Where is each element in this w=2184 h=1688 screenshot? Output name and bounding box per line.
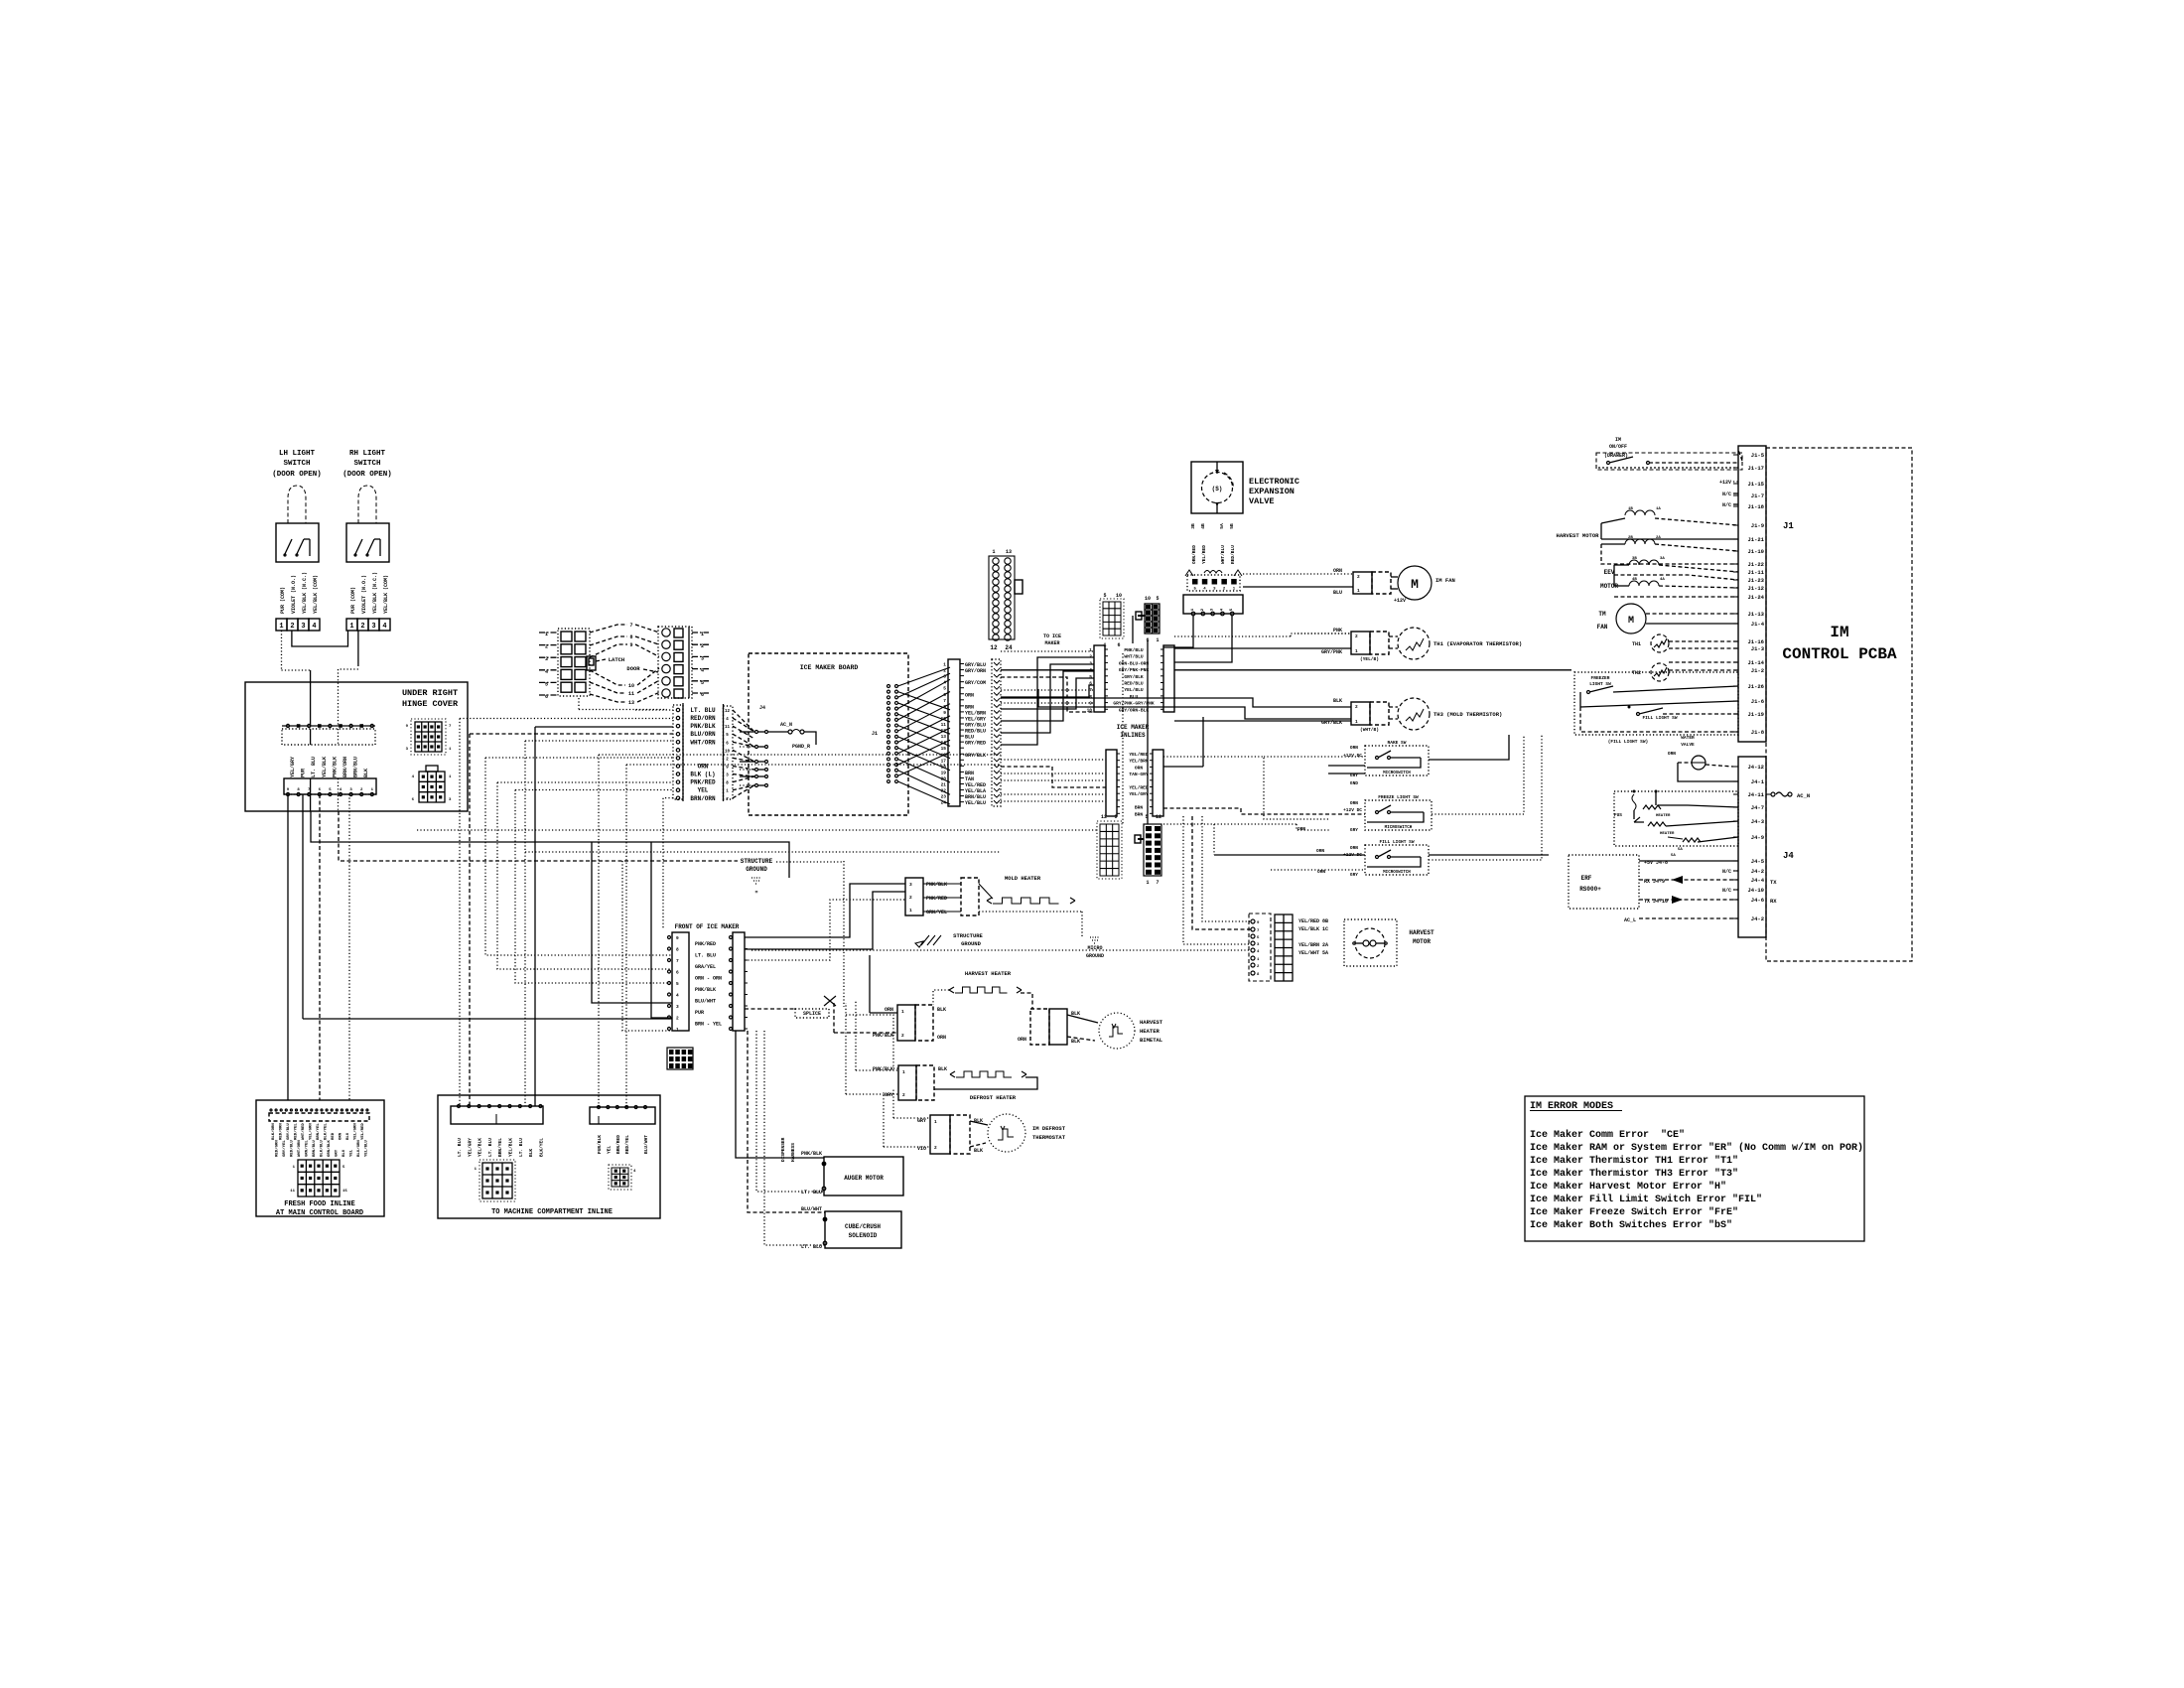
svg-text:13: 13 [1006, 549, 1012, 555]
svg-text:GRN/YEL: GRN/YEL [926, 910, 947, 915]
svg-text:FRONT OF ICE MAKER: FRONT OF ICE MAKER [675, 923, 740, 930]
svg-text:BLK: BLK [363, 769, 369, 777]
svg-text:YEL/BLK (COM): YEL/BLK (COM) [313, 575, 319, 614]
svg-text:3: 3 [676, 1004, 679, 1010]
svg-text:2: 2 [1357, 574, 1360, 580]
svg-text:J1-7: J1-7 [1751, 492, 1764, 499]
svg-text:M: M [1628, 616, 1634, 627]
svg-text:8: 8 [676, 947, 679, 953]
svg-text:J4-4: J4-4 [1751, 877, 1765, 884]
svg-text:J1-12: J1-12 [1747, 585, 1764, 592]
svg-text:8: 8 [943, 704, 946, 710]
svg-text:21: 21 [941, 782, 947, 788]
svg-text:MICROSWITCH: MICROSWITCH [1383, 871, 1411, 875]
svg-text:(DOOR OPEN): (DOOR OPEN) [342, 471, 392, 479]
svg-text:YEL/RED 8B: YEL/RED 8B [1298, 918, 1328, 924]
svg-text:BLU: BLU [342, 1149, 346, 1157]
svg-text:BRN: BRN [1135, 805, 1144, 811]
svg-text:2: 2 [902, 1092, 905, 1098]
svg-text:13: 13 [941, 734, 947, 740]
svg-text:(FILL LIGHT SW): (FILL LIGHT SW) [1608, 739, 1649, 745]
svg-text:AUGER MOTOR: AUGER MOTOR [844, 1175, 884, 1182]
svg-text:1: 1 [279, 623, 283, 631]
svg-text:ORN: ORN [340, 1132, 343, 1140]
svg-text:MOTOR: MOTOR [1413, 938, 1431, 945]
svg-text:GRN/YEL: GRN/YEL [305, 1140, 310, 1157]
svg-text:PNK/RED: PNK/RED [690, 779, 716, 786]
svg-text:11: 11 [628, 691, 634, 697]
svg-text:ORN: ORN [1018, 1037, 1026, 1043]
svg-text:ORN - ORN: ORN - ORN [695, 976, 722, 982]
svg-text:N/C: N/C [1722, 888, 1731, 894]
svg-text:LT. BLU: LT. BLU [457, 1138, 463, 1157]
svg-text:WHT/BLU: WHT/BLU [1124, 654, 1144, 660]
svg-text:GRY: GRY [1350, 773, 1358, 778]
svg-text:HEATER: HEATER [1660, 832, 1675, 836]
svg-text:YEL/RED: YEL/RED [1129, 785, 1149, 791]
svg-text:3A: 3A [1660, 557, 1665, 561]
svg-text:2: 2 [901, 1033, 904, 1039]
svg-text:5: 5 [1156, 596, 1159, 602]
svg-text:J4-10: J4-10 [1747, 887, 1764, 894]
svg-text:HARVEST HEATER: HARVEST HEATER [965, 970, 1012, 977]
svg-text:TH3 (MOLD THERMISTOR): TH3 (MOLD THERMISTOR) [1433, 711, 1502, 718]
svg-text:7: 7 [629, 623, 632, 629]
svg-text:GRY/BLK: GRY/BLK [1321, 720, 1342, 726]
svg-text:IM DEFROST: IM DEFROST [1032, 1125, 1066, 1132]
svg-text:J1-4: J1-4 [1751, 621, 1765, 628]
svg-text:J4-12: J4-12 [1747, 764, 1764, 771]
svg-text:PUR: PUR [695, 1010, 704, 1016]
svg-text:2: 2 [934, 1145, 937, 1151]
svg-text:1: 1 [1355, 648, 1358, 654]
svg-text:BRN - YEL: BRN - YEL [695, 1022, 722, 1028]
svg-text:TAN-GRY: TAN-GRY [1129, 772, 1149, 777]
svg-text:2: 2 [290, 623, 294, 631]
svg-text:IM: IM [1830, 624, 1848, 641]
svg-text:GND: GND [1350, 780, 1358, 786]
svg-text:MICROSWITCH: MICROSWITCH [1385, 826, 1413, 830]
svg-text:PNK/BLU: PNK/BLU [1124, 647, 1144, 653]
svg-text:BLK: BLK [938, 1066, 947, 1072]
svg-text:1: 1 [992, 549, 995, 555]
svg-text:GRY/BLK: GRY/BLK [965, 753, 986, 759]
svg-text:4: 4 [676, 993, 679, 999]
svg-text:PNK/BLK: PNK/BLK [695, 987, 716, 993]
svg-text:ORN/BLK: ORN/BLK [327, 1140, 332, 1157]
svg-text:YEL/BRN: YEL/BRN [1129, 759, 1149, 765]
svg-text:Ice Maker Both Switches Error: Ice Maker Both Switches Error "bS" [1530, 1219, 1732, 1231]
svg-text:GRY: GRY [336, 1149, 340, 1157]
svg-text:ORN: ORN [885, 1007, 893, 1013]
svg-text:GRY/BLK: GRY/BLK [1124, 674, 1144, 680]
svg-text:1: 1 [934, 1119, 937, 1125]
svg-text:LT. BLU: LT. BLU [695, 953, 716, 959]
svg-text:ORN: ORN [965, 692, 974, 698]
svg-text:IM: IM [1615, 437, 1621, 443]
svg-text:BLU/GRN: BLU/GRN [356, 1140, 361, 1157]
svg-text:J1-10: J1-10 [1747, 548, 1764, 555]
svg-text:GRY/PNK: GRY/PNK [1321, 649, 1342, 655]
svg-text:ORN: ORN [1668, 751, 1676, 757]
svg-text:WATER: WATER [1681, 735, 1695, 741]
svg-text:1: 1 [909, 908, 912, 914]
svg-text:ON/OFF: ON/OFF [1609, 444, 1627, 450]
svg-text:TH2: TH2 [1632, 670, 1641, 676]
svg-text:4: 4 [943, 680, 946, 686]
svg-text:ORN: ORN [1297, 826, 1305, 832]
svg-text:5: 5 [1089, 674, 1092, 680]
svg-text:RED/GRN: RED/GRN [275, 1140, 280, 1157]
svg-text:GROUND: GROUND [961, 940, 982, 947]
svg-text:FREEZER: FREEZER [1591, 675, 1610, 681]
svg-text:J1-14: J1-14 [1747, 659, 1764, 666]
svg-text:FILL LIGHT SW: FILL LIGHT SW [1379, 839, 1414, 845]
svg-text:J1-2: J1-2 [1751, 667, 1764, 674]
svg-text:RAKE SW: RAKE SW [1388, 740, 1407, 746]
svg-text:N/C: N/C [1722, 869, 1731, 875]
svg-text:LH LIGHT: LH LIGHT [279, 450, 316, 458]
svg-text:23: 23 [941, 794, 947, 800]
svg-text:MOLD HEATER: MOLD HEATER [1005, 875, 1041, 882]
svg-text:YEL/BLK 1C: YEL/BLK 1C [1298, 926, 1328, 932]
svg-text:YEL/BRN 2A: YEL/BRN 2A [1298, 942, 1328, 948]
svg-text:YEL: YEL [698, 787, 709, 794]
svg-text:(DOOR OPEN): (DOOR OPEN) [272, 471, 322, 479]
svg-text:5A: 5A [1678, 848, 1683, 852]
svg-text:BLK: BLK [528, 1149, 534, 1157]
svg-text:BLU/WHT: BLU/WHT [695, 999, 716, 1005]
svg-text:DOOR: DOOR [626, 665, 640, 672]
svg-text:EXPANSION: EXPANSION [1249, 487, 1295, 496]
svg-text:1: 1 [1355, 719, 1358, 725]
svg-text:PNK/BLK: PNK/BLK [801, 1151, 822, 1157]
svg-text:GRY/BLU: GRY/BLU [286, 1123, 291, 1140]
svg-text:14: 14 [941, 740, 947, 746]
svg-text:1: 1 [943, 662, 946, 668]
svg-text:N/C: N/C [1722, 492, 1731, 497]
svg-text:BLU: BLU [1333, 590, 1342, 596]
svg-text:19: 19 [941, 770, 947, 775]
svg-text:J1-5: J1-5 [1751, 452, 1765, 459]
svg-text:EEV: EEV [1604, 569, 1615, 576]
svg-text:Ice Maker Harvest Motor Error: Ice Maker Harvest Motor Error "H" [1530, 1181, 1726, 1193]
svg-text:2: 2 [676, 1016, 679, 1022]
svg-text:YEL/GRY: YEL/GRY [290, 757, 296, 777]
svg-text:YEL/RED: YEL/RED [360, 1123, 365, 1140]
svg-text:2: 2 [909, 895, 912, 901]
svg-text:TO MACHINE COMPARTMENT INLINE: TO MACHINE COMPARTMENT INLINE [491, 1208, 613, 1216]
svg-text:YEL/BLK (COM): YEL/BLK (COM) [383, 575, 389, 614]
svg-text:LT. BLU: LT. BLU [518, 1138, 524, 1157]
svg-text:24: 24 [1005, 644, 1013, 651]
svg-text:PNK/BLK: PNK/BLK [332, 757, 338, 777]
svg-text:LT. BLU: LT. BLU [801, 1244, 822, 1250]
svg-text:RED/BLU: RED/BLU [1230, 545, 1236, 564]
svg-text:SPLICE: SPLICE [803, 1011, 821, 1017]
svg-text:5: 5 [943, 686, 946, 692]
svg-text:LT. BLU: LT. BLU [801, 1190, 822, 1196]
svg-text:9: 9 [1114, 814, 1117, 820]
svg-text:BRN: BRN [1135, 811, 1144, 817]
svg-text:ELECTRONIC: ELECTRONIC [1249, 477, 1299, 487]
svg-text:J4-9: J4-9 [1751, 834, 1764, 841]
svg-text:11: 11 [725, 726, 731, 730]
svg-text:1: 1 [902, 1069, 905, 1075]
svg-text:YEL/RED: YEL/RED [1201, 545, 1207, 564]
svg-text:6: 6 [1117, 642, 1120, 648]
svg-text:2: 2 [1355, 704, 1358, 710]
svg-text:J4-2: J4-2 [1751, 868, 1764, 875]
svg-text:MAKER: MAKER [1044, 640, 1059, 646]
svg-text:10: 10 [1116, 593, 1122, 599]
svg-text:YEL/GRY: YEL/GRY [1129, 791, 1149, 797]
svg-text:BLK: BLK [937, 1007, 946, 1013]
svg-text:BRN/BLU: BRN/BLU [353, 757, 359, 777]
svg-text:PNK/BLK: PNK/BLK [690, 723, 716, 730]
svg-text:N/C: N/C [1722, 502, 1731, 508]
svg-text:LT. BLU: LT. BLU [690, 707, 716, 714]
svg-text:3B: 3B [1632, 557, 1637, 561]
svg-text:8: 8 [629, 634, 632, 640]
svg-text:BRN/YEL: BRN/YEL [316, 1123, 321, 1140]
svg-text:SWITCH: SWITCH [283, 460, 310, 468]
svg-text:BLK/YEL: BLK/YEL [538, 1138, 544, 1157]
svg-text:STRUCTURE: STRUCTURE [953, 932, 983, 939]
svg-text:BLU: BLU [346, 1132, 350, 1140]
svg-text:5B: 5B [1229, 523, 1235, 529]
svg-text:HEATER: HEATER [1656, 814, 1671, 818]
svg-text:1: 1 [1089, 647, 1092, 653]
svg-text:WHT/ORN: WHT/ORN [297, 1140, 302, 1157]
svg-text:GRA/YEL: GRA/YEL [695, 964, 716, 970]
svg-text:7: 7 [676, 958, 679, 964]
svg-text:3: 3 [943, 674, 946, 680]
svg-text:TH1 (EVAPORATOR THERMISTOR): TH1 (EVAPORATOR THERMISTOR) [1433, 640, 1522, 647]
svg-text:RED/BLU: RED/BLU [1124, 681, 1144, 687]
svg-text:SOLENOID: SOLENOID [849, 1232, 878, 1239]
svg-text:CUBE/CRUSH: CUBE/CRUSH [845, 1223, 881, 1230]
svg-text:DISPENSER: DISPENSER [780, 1137, 786, 1162]
svg-text:1: 1 [1156, 637, 1159, 643]
svg-text:HARNESS: HARNESS [790, 1143, 796, 1162]
svg-text:3: 3 [301, 623, 305, 631]
svg-text:VIOLET (N.O.): VIOLET (N.O.) [291, 575, 297, 614]
svg-text:6: 6 [943, 692, 946, 698]
svg-text:J1-26: J1-26 [1747, 683, 1764, 690]
svg-text:2: 2 [1355, 633, 1358, 639]
svg-text:17: 17 [941, 758, 947, 764]
svg-text:12: 12 [725, 710, 731, 714]
svg-text:(DRAWER): (DRAWER) [1604, 453, 1628, 459]
svg-text:AT MAIN CONTROL BOARD: AT MAIN CONTROL BOARD [276, 1209, 363, 1217]
svg-text:IM FAN: IM FAN [1435, 577, 1455, 584]
svg-text:J1-3: J1-3 [1751, 645, 1765, 652]
svg-text:BLK: BLK [1071, 1039, 1080, 1045]
svg-text:8: 8 [1089, 694, 1092, 700]
svg-text:PUR/BLK: PUR/BLK [597, 1135, 603, 1154]
svg-text:J1: J1 [872, 731, 878, 737]
svg-text:12: 12 [1156, 814, 1161, 820]
svg-text:RS000+: RS000+ [1579, 886, 1601, 893]
svg-text:ORN: ORN [1350, 745, 1358, 751]
svg-text:ORN: ORN [1316, 848, 1324, 854]
svg-text:1: 1 [676, 1027, 679, 1033]
svg-text:ORN: ORN [1333, 568, 1342, 574]
svg-text:GRY/RED: GRY/RED [965, 741, 986, 747]
svg-text:4: 4 [382, 623, 386, 631]
svg-text:GRY: GRY [1350, 872, 1358, 878]
svg-text:PNK/BLK: PNK/BLK [873, 1033, 893, 1039]
svg-text:BRN/YEL: BRN/YEL [497, 1138, 503, 1157]
svg-text:TO ICE: TO ICE [1043, 633, 1061, 639]
svg-text:ERF: ERF [1581, 875, 1592, 882]
svg-text:WHT/RED: WHT/RED [301, 1123, 306, 1140]
svg-text:LT. BLU: LT. BLU [487, 1138, 493, 1157]
svg-text:3B: 3B [1190, 523, 1196, 529]
svg-text:Ice Maker Thermistor TH3 Error: Ice Maker Thermistor TH3 Error "T3" [1530, 1168, 1738, 1180]
svg-text:J1-8: J1-8 [1751, 729, 1765, 736]
svg-text:9: 9 [676, 935, 679, 941]
svg-text:PNK/BLK: PNK/BLK [926, 882, 947, 888]
svg-text:YEL/BLK: YEL/BLK [508, 1138, 514, 1157]
svg-text:12: 12 [1101, 814, 1107, 820]
svg-text:J4-2: J4-2 [1751, 915, 1764, 922]
svg-text:(WHT/B): (WHT/B) [1360, 727, 1379, 733]
svg-text:YEL/BLU: YEL/BLU [364, 1140, 369, 1157]
svg-text:RED/ORN: RED/ORN [279, 1123, 284, 1140]
svg-text:12: 12 [990, 644, 998, 651]
svg-text:3: 3 [371, 623, 375, 631]
svg-text:RED/YEL: RED/YEL [624, 1135, 630, 1154]
svg-text:15: 15 [941, 746, 947, 752]
svg-text:LATCH: LATCH [609, 656, 625, 663]
svg-text:YEL/RED: YEL/RED [1129, 752, 1149, 758]
svg-text:PUR (COM): PUR (COM) [280, 587, 286, 614]
svg-text:YEL/WHT 5A: YEL/WHT 5A [1298, 950, 1328, 956]
svg-text:VALVE: VALVE [1681, 742, 1695, 748]
svg-text:GRY/ORN: GRY/ORN [965, 668, 986, 674]
svg-text:J1-18: J1-18 [1747, 503, 1764, 510]
svg-text:WHT/BLU: WHT/BLU [1220, 545, 1226, 564]
svg-text:=: = [754, 890, 757, 896]
svg-text:+12V DC: +12V DC [1343, 807, 1362, 813]
svg-text:AC_N: AC_N [1797, 792, 1810, 799]
svg-text:BRN/ORN: BRN/ORN [342, 757, 348, 777]
svg-text:TX: TX [1770, 879, 1777, 886]
svg-text:J4-7: J4-7 [1751, 804, 1764, 811]
svg-text:FAN: FAN [1597, 624, 1608, 631]
svg-text:THERMOSTAT: THERMOSTAT [1032, 1134, 1066, 1141]
svg-text:ORN/RED: ORN/RED [1191, 545, 1197, 564]
svg-text:J4: J4 [759, 705, 765, 711]
svg-text:10: 10 [628, 683, 634, 689]
svg-text:UNDER RIGHT: UNDER RIGHT [402, 688, 458, 698]
svg-text:ORN: ORN [937, 1035, 946, 1041]
svg-text:FILL LIGHT SW: FILL LIGHT SW [1642, 715, 1677, 721]
svg-text:13: 13 [628, 700, 634, 706]
svg-text:WHT/ORN: WHT/ORN [690, 739, 716, 746]
svg-text:9: 9 [629, 642, 632, 648]
svg-text:1: 1 [1357, 588, 1360, 594]
svg-text:MICRO: MICRO [1087, 945, 1102, 951]
svg-text:YEL/BLK (N.C.): YEL/BLK (N.C.) [372, 572, 378, 614]
svg-text:VIOLET (N.O.): VIOLET (N.O.) [361, 575, 367, 614]
svg-text:5A: 5A [1671, 854, 1676, 858]
svg-text:J1-19: J1-19 [1747, 711, 1764, 718]
svg-text:ORN: ORN [1135, 765, 1144, 771]
svg-text:J1-24: J1-24 [1747, 594, 1764, 601]
svg-text:+12V: +12V [1719, 480, 1731, 486]
svg-text:MICROSWITCH: MICROSWITCH [1383, 772, 1411, 775]
svg-text:12: 12 [941, 728, 947, 734]
svg-text:1A: 1A [1656, 507, 1661, 511]
svg-text:BIMETAL: BIMETAL [1140, 1037, 1163, 1044]
svg-text:BLK (L): BLK (L) [690, 772, 715, 778]
svg-text:J4-3: J4-3 [1751, 818, 1765, 825]
svg-text:J1-16: J1-16 [1747, 638, 1764, 645]
svg-text:7: 7 [943, 698, 946, 704]
svg-text:GRY: GRY [917, 1118, 926, 1124]
svg-text:TM: TM [1598, 611, 1606, 618]
svg-text:BLU: BLU [1130, 694, 1139, 700]
svg-text:BLK/ORN: BLK/ORN [271, 1123, 276, 1140]
svg-text:2A: 2A [1656, 536, 1661, 540]
svg-text:J4-1: J4-1 [1751, 778, 1765, 785]
svg-text:RED/BLU: RED/BLU [290, 1140, 295, 1157]
svg-text:BLK: BLK [974, 1148, 983, 1154]
svg-text:YEL/BLK (N.C.): YEL/BLK (N.C.) [302, 572, 308, 614]
svg-text:PNK/RED: PNK/RED [926, 896, 947, 902]
svg-text:BLK/BLU: BLK/BLU [320, 1140, 325, 1157]
svg-text:DEFROST HEATER: DEFROST HEATER [970, 1094, 1017, 1101]
svg-text:(S): (S) [1212, 486, 1223, 492]
svg-text:ORN: ORN [1350, 800, 1358, 806]
svg-text:+12V DC: +12V DC [1343, 753, 1362, 759]
svg-text:5: 5 [676, 981, 679, 987]
svg-text:M: M [1411, 577, 1419, 592]
svg-text:HARVEST: HARVEST [1409, 929, 1434, 936]
svg-text:22: 22 [941, 788, 947, 794]
svg-text:FUS: FUS [1614, 812, 1622, 818]
svg-text:ORN: ORN [698, 763, 709, 770]
svg-text:1B: 1B [1628, 507, 1633, 511]
svg-text:BLU/ORN: BLU/ORN [690, 731, 716, 738]
svg-text:5: 5 [1103, 593, 1106, 599]
svg-text:20: 20 [941, 775, 947, 781]
svg-text:ICE MAKER: ICE MAKER [1117, 724, 1150, 731]
svg-text:YEL/BLK: YEL/BLK [478, 1138, 483, 1157]
svg-text:FREEZE LIGHT SW: FREEZE LIGHT SW [1378, 794, 1419, 800]
svg-text:RED/ORN: RED/ORN [690, 715, 716, 722]
svg-text:YEL: YEL [350, 1149, 354, 1157]
svg-text:CONTROL PCBA: CONTROL PCBA [1782, 645, 1897, 663]
svg-text:GRY: GRY [1350, 827, 1358, 833]
svg-text:2: 2 [943, 668, 946, 674]
svg-text:YEL/BLK: YEL/BLK [322, 757, 328, 777]
svg-text:BRN/RED: BRN/RED [615, 1135, 621, 1154]
svg-text:10: 10 [1145, 596, 1151, 602]
svg-text:GRY/YEL: GRY/YEL [282, 1140, 287, 1157]
svg-text:RH LIGHT: RH LIGHT [349, 450, 386, 458]
svg-text:BLU/WHT: BLU/WHT [643, 1135, 649, 1154]
svg-text:J1-21: J1-21 [1747, 536, 1764, 543]
svg-text:10: 10 [725, 750, 731, 754]
svg-text:BLK: BLK [1333, 698, 1342, 704]
svg-text:SWITCH: SWITCH [353, 460, 380, 468]
svg-text:1: 1 [1146, 880, 1149, 886]
svg-text:GROUND: GROUND [1086, 953, 1104, 959]
